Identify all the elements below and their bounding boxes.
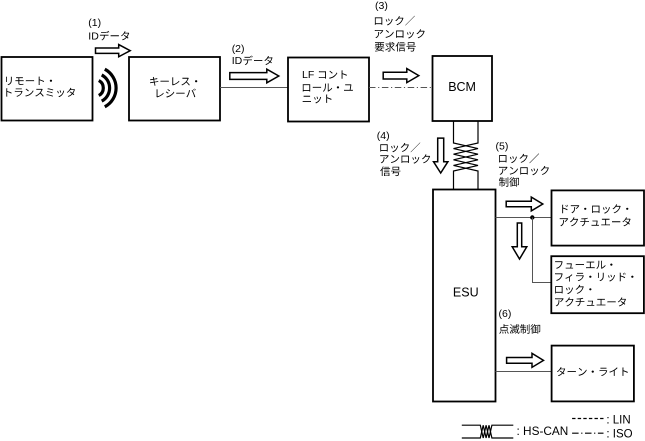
svg-text:ID: ID <box>232 55 243 67</box>
arrow (5) lock/unlock control <box>506 197 543 211</box>
label (3) line3 request signal <box>375 42 416 52</box>
twisted pair HS-CAN bus: BCM to ESU, wire A <box>454 121 479 190</box>
svg-text:: HS-CAN: : HS-CAN <box>517 424 569 438</box>
label ID data (1): katakana <box>100 31 129 41</box>
arrow (3) lock/unlock request signal <box>383 69 419 83</box>
box: keyless receiver U2 <box>129 57 220 121</box>
label: fuel filler lid line4 <box>555 297 626 306</box>
label (5) line3 control <box>499 177 519 187</box>
legend: HS-CAN twisted pair symbol, wire B <box>462 425 514 438</box>
label: fuel filler lid line1 <box>555 261 612 269</box>
label ID data (2): katakana <box>243 56 272 66</box>
label: door lock actuator line2 <box>560 217 631 226</box>
box: LF control unit U3 <box>288 58 369 122</box>
wire: ESU to turn light <box>496 371 552 373</box>
radio wave symbol <box>99 69 116 107</box>
legend: HS-CAN twisted pair symbol, wire A <box>462 425 514 438</box>
label: fuel filler lid line3 <box>555 285 591 294</box>
arrow (6) blink control <box>507 353 544 367</box>
legend: LIN dashed line sample <box>572 418 603 420</box>
box: ESU U5 <box>433 190 496 402</box>
box: fuel filler lid lock actuator U7 <box>551 256 644 313</box>
wire: junction down and right to fuel filler lid actuator <box>533 218 552 283</box>
wire: keyless receiver to LF control unit <box>220 87 288 89</box>
label: remote transmitter line1 <box>6 77 52 86</box>
label: turn light <box>557 367 628 376</box>
box: BCM U4 <box>433 56 493 121</box>
label: LF control unit line3 <box>303 95 332 104</box>
arrow (1) ID data <box>96 45 131 57</box>
svg-text:BCM: BCM <box>448 80 476 94</box>
svg-text:LF: LF <box>302 69 314 81</box>
label: door lock actuator line1 <box>562 204 628 213</box>
box: remote transmitter U1 <box>2 57 93 121</box>
label: keyless receiver line1 <box>150 77 197 86</box>
box: door lock actuator U6 <box>552 190 645 245</box>
label: fuel filler lid line2 <box>555 273 633 282</box>
label: LF control unit line2 <box>303 84 353 92</box>
arrow (4) lock/unlock signal <box>434 138 448 173</box>
label (6) blink control <box>499 324 540 334</box>
label (5) line2 unlock <box>499 166 549 175</box>
label (4) line2 unlock <box>380 154 430 163</box>
label (3) line1 lock/ <box>375 16 415 26</box>
label: keyless receiver line2 <box>157 89 196 98</box>
label (5) line1 lock/ <box>499 153 539 163</box>
svg-text:(6): (6) <box>499 308 512 320</box>
svg-text:: LIN: : LIN <box>606 415 630 427</box>
label (3) line2 unlock <box>375 29 425 38</box>
arrow (2) ID data <box>230 69 279 83</box>
wire (ISO dash-dot): LF control unit to BCM <box>369 87 433 89</box>
label (4) line1 lock/ <box>380 143 420 153</box>
svg-text:(5): (5) <box>496 140 509 152</box>
svg-text:(1): (1) <box>88 17 101 29</box>
svg-text:: ISO: : ISO <box>606 429 632 441</box>
label: LF control unit line1 katakana <box>319 70 347 78</box>
wire: ESU to door lock actuator <box>496 217 552 219</box>
junction node on door-lock wire <box>530 215 534 219</box>
svg-text:(3): (3) <box>375 0 388 12</box>
label: remote transmitter line2 <box>6 88 75 97</box>
svg-text:ESU: ESU <box>453 285 479 299</box>
twisted pair HS-CAN bus: BCM to ESU, wire B <box>454 121 479 190</box>
svg-text:ID: ID <box>88 31 99 43</box>
svg-text:(4): (4) <box>377 130 390 142</box>
label (4) line3 signal <box>380 166 400 176</box>
arrow down to fuel filler lid actuator <box>512 223 527 259</box>
legend: ISO dash-dot line sample <box>572 432 603 434</box>
box: turn light U8 <box>552 346 634 402</box>
svg-text:(2): (2) <box>232 43 245 55</box>
